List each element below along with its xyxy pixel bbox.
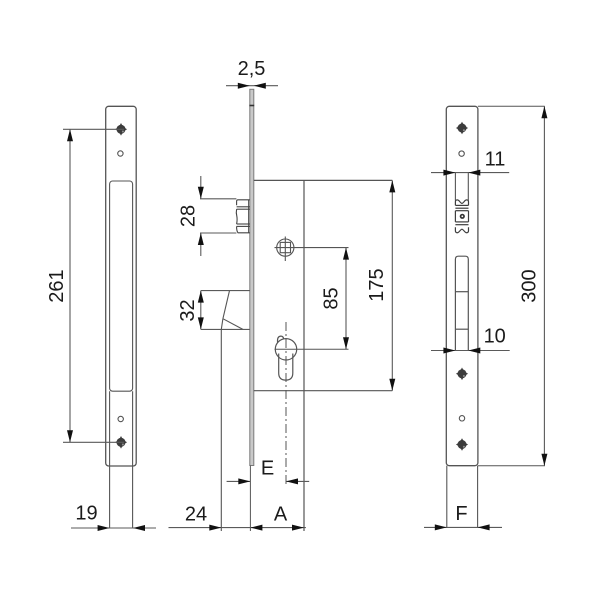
svg-text:261: 261 <box>46 269 68 302</box>
svg-text:F: F <box>455 503 467 525</box>
svg-text:2,5: 2,5 <box>238 58 266 80</box>
svg-text:E: E <box>261 458 274 480</box>
svg-text:300: 300 <box>519 269 541 302</box>
svg-text:85: 85 <box>321 287 343 309</box>
svg-text:11: 11 <box>485 149 506 171</box>
svg-text:10: 10 <box>484 326 506 348</box>
svg-text:19: 19 <box>75 503 97 525</box>
svg-text:A: A <box>274 504 288 526</box>
svg-text:175: 175 <box>366 268 388 301</box>
svg-text:24: 24 <box>185 504 207 526</box>
svg-text:32: 32 <box>177 299 199 321</box>
svg-text:28: 28 <box>177 205 199 227</box>
